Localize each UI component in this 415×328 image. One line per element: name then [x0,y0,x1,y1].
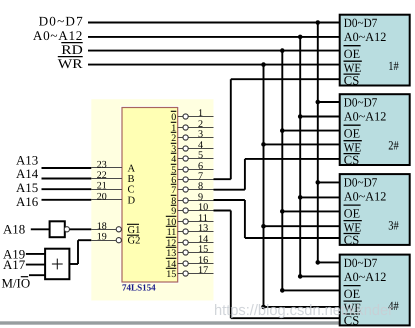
svg-text:23: 23 [97,160,107,171]
svg-text:10: 10 [198,202,208,213]
svg-text:5: 5 [198,150,203,161]
svg-text:M/IO: M/IO [2,277,31,291]
svg-text:G2: G2 [128,236,141,247]
svg-text:https://blog.csdn.net/kknder: https://blog.csdn.net/kknder [214,302,393,319]
svg-text:B: B [128,174,135,185]
svg-text:D0~D7: D0~D7 [344,16,378,30]
svg-text:8: 8 [198,181,203,192]
svg-text:9: 9 [171,206,176,217]
svg-text:2: 2 [171,133,176,144]
svg-text:A13: A13 [16,154,38,168]
svg-text:D0~D7: D0~D7 [344,256,378,270]
svg-text:21: 21 [97,181,107,192]
svg-text:CS: CS [344,233,359,247]
svg-text:A: A [128,164,136,175]
svg-text:74LS154: 74LS154 [122,284,156,294]
svg-text:20: 20 [97,191,107,202]
svg-text:19: 19 [97,232,107,243]
svg-text:A17: A17 [3,258,26,272]
svg-text:OE: OE [344,47,361,61]
svg-text:D0~D7: D0~D7 [344,176,378,190]
svg-text:17: 17 [198,265,208,276]
svg-text:11: 11 [167,227,177,238]
svg-text:2#: 2# [388,139,399,153]
svg-text:A0~A12: A0~A12 [33,28,83,43]
svg-text:D: D [128,195,136,206]
svg-text:G1: G1 [128,225,141,236]
svg-text:D0~D7: D0~D7 [39,14,84,29]
svg-text:7: 7 [171,185,176,196]
svg-text:OE: OE [344,206,361,220]
svg-text:A0~A12: A0~A12 [344,270,387,284]
svg-text:D0~D7: D0~D7 [344,96,378,110]
svg-text:A0~A12: A0~A12 [344,110,387,124]
svg-text:1#: 1# [388,59,399,73]
svg-text:13: 13 [166,248,176,259]
svg-text:3: 3 [198,129,203,140]
svg-text:A16: A16 [16,195,39,209]
svg-text:1: 1 [198,108,203,119]
svg-text:OE: OE [344,287,361,301]
svg-text:WR: WR [58,56,83,71]
svg-text:22: 22 [97,170,107,181]
svg-text:18: 18 [97,221,107,232]
svg-text:0: 0 [171,112,176,123]
svg-text:4: 4 [171,154,176,165]
svg-text:A15: A15 [16,181,38,195]
svg-text:15: 15 [166,269,176,280]
svg-text:CS: CS [344,153,359,167]
svg-text:CS: CS [344,73,359,87]
svg-text:A18: A18 [3,223,25,237]
svg-text:OE: OE [344,126,361,140]
svg-text:A14: A14 [16,167,39,181]
svg-text:13: 13 [198,223,208,234]
svg-text:A0~A12: A0~A12 [344,30,387,44]
svg-text:RD: RD [61,42,82,57]
svg-text:C: C [128,185,135,196]
svg-text:3#: 3# [388,218,399,232]
svg-text:15: 15 [198,244,208,255]
svg-text:A0~A12: A0~A12 [344,189,387,203]
